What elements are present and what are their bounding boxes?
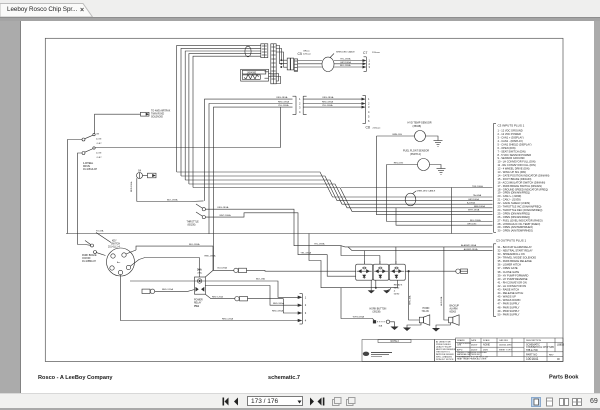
logo in title block	[363, 352, 392, 357]
left bus vertical 2	[78, 153, 83, 245]
key switch circle	[107, 248, 300, 297]
svg-text:FUEL FLOAT SENSOR: FUEL FLOAT SENSOR	[403, 149, 429, 152]
svg-text:ON/OFF: ON/OFF	[82, 258, 91, 260]
svg-text:(39138): (39138)	[373, 312, 381, 314]
svg-text:6: 6	[368, 119, 370, 123]
C3 outputs list text	[496, 238, 536, 316]
svg-text:NONE: NONE	[483, 344, 490, 347]
svg-text:BRN-18G: BRN-18G	[393, 134, 403, 136]
svg-text:26 - OPEN (DIN/AIN/FREQ): 26 - OPEN (DIN/AIN/FREQ)	[498, 215, 531, 219]
fuse lower RED-12GA	[205, 294, 299, 313]
svg-text:16 - ACCUMULATOR SWITCH (DIN/A: 16 - ACCUMULATOR SWITCH (DIN/AIN)	[498, 180, 546, 184]
svg-text:19 - OPEN (DIN/AIN/FREQ): 19 - OPEN (DIN/AIN/FREQ)	[498, 191, 531, 195]
svg-text:25 - OPEN (DIN/AIN/FREQ): 25 - OPEN (DIN/AIN/FREQ)	[498, 211, 531, 215]
svg-text:5 - CAN1 SHIELD (DISPLAY): 5 - CAN1 SHIELD (DISPLAY)	[498, 142, 532, 146]
wire relay out to gate plug	[405, 270, 455, 272]
hyd temp sensor circle	[377, 131, 439, 142]
svg-text:ALR-18A: ALR-18A	[440, 296, 443, 305]
svg-text:schematic.7: schematic.7	[268, 375, 300, 381]
svg-text:RED 12GA: RED 12GA	[212, 296, 223, 299]
svg-text:WHT-18GA: WHT-18GA	[219, 214, 231, 217]
svg-text:2: 2	[368, 102, 370, 106]
svg-text:D-ON: D-ON	[96, 152, 102, 154]
svg-text:RED-18GA: RED-18GA	[273, 302, 284, 305]
svg-text:SCALE: SCALE	[483, 339, 490, 342]
svg-text:ALARM: ALARM	[450, 308, 458, 311]
svg-text:47 - PWR SUPPLY: 47 - PWR SUPPLY	[498, 302, 520, 306]
svg-text:44 - RELEASE HITCH: 44 - RELEASE HITCH	[498, 291, 524, 295]
fuel float sensor circle	[387, 159, 441, 183]
wire S4 drop	[136, 178, 138, 201]
ground horn	[404, 323, 421, 331]
wire wraps from block B to C5	[276, 46, 287, 64]
layout icons	[532, 398, 582, 407]
svg-text:O-BY: O-BY	[97, 143, 103, 145]
svg-text:RED-12GA: RED-12GA	[162, 288, 173, 291]
svg-text:S4: S4	[138, 169, 142, 172]
svg-text:&: &	[394, 290, 396, 292]
wire fuse to relay trio	[247, 269, 356, 272]
svg-text:11 - RH CONVEYOR FULL (DIN): 11 - RH CONVEYOR FULL (DIN)	[498, 163, 536, 167]
svg-text:POWER: POWER	[194, 300, 203, 302]
svg-text:DATE: DATE	[471, 339, 477, 342]
svg-text:P2-18A: P2-18A	[96, 229, 104, 232]
svg-text:UNLESS OTHERWISE SPECIFIED: UNLESS OTHERWISE SPECIFIED	[457, 352, 488, 354]
svg-text:50/60: 50/60	[394, 287, 400, 289]
wires C5 to shielded cable circle	[298, 60, 322, 62]
wire wraps from block B bottom to diode box	[269, 74, 279, 82]
svg-text:ORG-18GA: ORG-18GA	[276, 96, 288, 99]
wire sensor bus to C3	[377, 136, 493, 215]
svg-text:HORN BUTTON: HORN BUTTON	[370, 308, 387, 310]
svg-text:Rosco - A LeeBoy Company: Rosco - A LeeBoy Company	[38, 375, 113, 381]
svg-text:DESCRIPTION: DESCRIPTION	[526, 340, 541, 342]
ground fuel float	[437, 169, 446, 175]
svg-text:YEL-18GA: YEL-18GA	[278, 104, 289, 107]
svg-text:38 - CLOSE GATE: 38 - CLOSE GATE	[498, 270, 520, 274]
svg-text:2: 2	[299, 102, 301, 106]
snapshot icons	[333, 398, 356, 406]
svg-text:WHT-18GA: WHT-18GA	[353, 316, 365, 319]
cable tie ellipse	[245, 46, 251, 57]
svg-text:40 - HY PUMP REVERSE: 40 - HY PUMP REVERSE	[498, 277, 528, 281]
svg-text:27 - FUEL LEVEL INDICATOR (RHE: 27 - FUEL LEVEL INDICATOR (RHEO)	[498, 218, 543, 222]
svg-text:24 - THROTTLE DEC (DIN/AIN/FRE: 24 - THROTTLE DEC (DIN/AIN/FREQ)	[498, 208, 543, 212]
svg-text:37 - OPEN GATE: 37 - OPEN GATE	[498, 266, 518, 270]
svg-text:GRY-18GA: GRY-18GA	[340, 61, 351, 64]
nested loop corner to relay feeds	[309, 234, 398, 288]
svg-text:RED-18G: RED-18G	[394, 162, 404, 164]
svg-text:2 - 12 VDC POWER: 2 - 12 VDC POWER	[498, 132, 521, 136]
svg-text:3: 3	[299, 106, 301, 110]
svg-text:34 - TRAVEL 'MODE' SOLENOID: 34 - TRAVEL 'MODE' SOLENOID	[498, 256, 537, 260]
wire bundle top-left 4 conductors	[177, 45, 261, 172]
wire throttle out 2 staircase	[205, 213, 294, 217]
footer texts	[38, 375, 579, 382]
shielded cable symbol lower	[405, 193, 416, 206]
svg-text:REV: REV	[549, 354, 554, 356]
svg-text:DRIVE: DRIVE	[83, 166, 90, 168]
svg-text:SHIELDED CABLE: SHIELDED CABLE	[336, 51, 355, 54]
wire key to relay coil A	[136, 246, 213, 250]
alarm wires to C3 outputs	[444, 246, 493, 248]
svg-text:7 - SEAT SWITCH (DIN): 7 - SEAT SWITCH (DIN)	[498, 149, 526, 153]
wire key down long RED-12GA	[121, 275, 300, 321]
horn speaker	[419, 315, 430, 326]
svg-text:TO 4WD AIRTRAX: TO 4WD AIRTRAX	[151, 110, 171, 113]
svg-text:Parts Book: Parts Book	[549, 375, 579, 381]
fuse feed left RED-12GA	[142, 289, 195, 293]
svg-text:C5: C5	[298, 52, 302, 56]
svg-text:50/90: 50/90	[394, 293, 400, 295]
svg-text:49 - PWR SUPPLY: 49 - PWR SUPPLY	[498, 309, 520, 313]
svg-text:SOLENOID: SOLENOID	[151, 117, 163, 119]
wire mid vertical to relays feed	[294, 213, 356, 276]
svg-text:21 - CANJ - (J1939): 21 - CANJ - (J1939)	[498, 198, 521, 202]
svg-text:BLU-18GA: BLU-18GA	[470, 219, 481, 222]
4WD switch	[82, 114, 141, 154]
svg-text:39 - HY PUMP FORWARD: 39 - HY PUMP FORWARD	[498, 273, 529, 277]
backup alarm speaker	[449, 315, 460, 326]
wire to C8 pin2	[205, 286, 299, 306]
wire key to relay coil B	[139, 258, 199, 278]
harness wires ORG/RED/YEL to C8	[205, 99, 293, 201]
connector block B	[271, 44, 276, 84]
relay trigger drops	[363, 251, 365, 265]
connector block A	[261, 44, 268, 58]
svg-text:(78L): (78L)	[198, 273, 203, 275]
svg-text:SHEET 7 OF 9: SHEET 7 OF 9	[499, 349, 512, 351]
svg-text:9 - SENSOR GROUND: 9 - SENSOR GROUND	[498, 156, 525, 160]
svg-text:DRAWN: DRAWN	[457, 339, 465, 342]
fuse upper BLU	[234, 268, 247, 272]
svg-text:TA-GNA: TA-GNA	[473, 194, 482, 197]
svg-text:46 - WINGS DOWN: 46 - WINGS DOWN	[498, 298, 521, 302]
svg-text:GRxxx: GRxxx	[303, 51, 310, 53]
wire P2 into key switch	[96, 233, 111, 243]
frame border	[45, 38, 563, 361]
svg-text:1001641.DWG: 1001641.DWG	[499, 345, 512, 347]
svg-text:ORG-18GA: ORG-18GA	[322, 96, 334, 99]
svg-text:C7: C7	[363, 51, 367, 55]
svg-text:T8B & 70D: T8B & 70D	[526, 349, 538, 352]
svg-text:30A: 30A	[197, 268, 202, 272]
relay box 3	[389, 261, 405, 280]
nav first-page icon	[223, 398, 325, 406]
svg-text:3 - CAN1 + (DISPLAY): 3 - CAN1 + (DISPLAY)	[498, 136, 524, 140]
svg-text:BLK-18GA: BLK-18GA	[340, 64, 351, 67]
svg-text:TRK-18GA: TRK-18GA	[472, 185, 483, 188]
ground horn button	[390, 322, 398, 330]
svg-text:4/02/07: 4/02/07	[471, 345, 477, 347]
wires circle to C7	[334, 60, 363, 62]
horn button contacts	[373, 320, 389, 323]
svg-text:12 - 4 WHEEL DRIVE (DIN): 12 - 4 WHEEL DRIVE (DIN)	[498, 167, 530, 171]
left bus vertical 1	[68, 140, 83, 234]
wire key coil A drop	[213, 246, 234, 270]
connector C8 top bracket	[362, 96, 366, 124]
svg-text:14 - GATE POSITION INDICATOR (: 14 - GATE POSITION INDICATOR (DIN/AIN)	[498, 173, 550, 177]
svg-text:20 - CANJ + (J1939): 20 - CANJ + (J1939)	[498, 194, 522, 198]
connector C7 bracket	[363, 57, 367, 72]
svg-text:1N5400E: 1N5400E	[247, 72, 257, 74]
title block texts	[391, 339, 565, 361]
svg-text:2: 2	[305, 303, 307, 307]
svg-text:50 - PWR SUPPLY: 50 - PWR SUPPLY	[498, 312, 520, 316]
svg-text:3: 3	[368, 105, 370, 109]
svg-text:ALARM2-18GA: ALARM2-18GA	[461, 244, 477, 247]
svg-text:RELAYS: RELAYS	[394, 283, 403, 286]
svg-text:33 - SPREADROLL ON: 33 - SPREADROLL ON	[498, 252, 525, 256]
throttle switch	[196, 204, 205, 219]
relay box 2	[373, 261, 389, 280]
svg-text:29 - OPEN (AIN/TEMP/RHEO): 29 - OPEN (AIN/TEMP/RHEO)	[498, 225, 534, 229]
svg-text:THROTTLE: THROTTLE	[187, 221, 200, 223]
svg-text:70A: 70A	[194, 304, 199, 308]
relay box 1	[356, 261, 373, 280]
svg-text:4 - CAN1 - (DISPLAY): 4 - CAN1 - (DISPLAY)	[498, 139, 524, 143]
svg-text:(35478-2): (35478-2)	[410, 153, 421, 156]
junction dots relays	[280, 59, 409, 289]
svg-text:GRY-18G: GRY-18G	[467, 224, 477, 226]
svg-text:3: 3	[305, 311, 307, 315]
svg-text:PARK BRAKE: PARK BRAKE	[82, 254, 97, 257]
svg-text:(65100): (65100)	[188, 224, 196, 226]
svg-text:32 - NEUTRAL START RELAY: 32 - NEUTRAL START RELAY	[498, 248, 533, 252]
inline connector pair brackets	[293, 96, 307, 114]
diode suppressor box 1N5400E	[241, 69, 269, 81]
svg-text:CAD FILE: CAD FILE	[499, 339, 509, 342]
C3 inputs list text	[498, 124, 550, 233]
svg-text:1: 1	[305, 295, 307, 299]
svg-text:8 - 5 VDC SENSOR POWER: 8 - 5 VDC SENSOR POWER	[498, 153, 532, 157]
svg-text:18 - GROUND SPEED INDICATOR (F: 18 - GROUND SPEED INDICATOR (FREQ)	[498, 187, 549, 191]
ground relay1	[369, 291, 375, 293]
svg-text:C3 INPUTS PLUS 1: C3 INPUTS PLUS 1	[498, 124, 525, 128]
svg-text:YEL-18GA: YEL-18GA	[314, 243, 325, 246]
svg-text:42 - LH CONVEYOR ON: 42 - LH CONVEYOR ON	[498, 284, 527, 288]
svg-text:SWITCH: SWITCH	[111, 243, 120, 245]
relay outputs below	[370, 280, 372, 291]
svg-text:31 - BACKUP ALARM RELAY: 31 - BACKUP ALARM RELAY	[498, 245, 533, 249]
svg-text:4: 4	[305, 319, 307, 323]
svg-text:HRN-18A: HRN-18A	[408, 295, 411, 305]
svg-text:Acc: Acc	[117, 261, 120, 264]
svg-text:4-WHEEL: 4-WHEEL	[83, 163, 94, 165]
svg-text:ALRM2-18GA: ALRM2-18GA	[464, 248, 478, 251]
svg-text:RED-18GA: RED-18GA	[272, 310, 283, 313]
svg-text:SHIELDED CABLE: SHIELDED CABLE	[417, 189, 436, 192]
connector C8 left bracket	[298, 294, 302, 325]
svg-text:1 - 12 VDC GROUND: 1 - 12 VDC GROUND	[498, 129, 523, 133]
svg-text:17 - PARK BRAKE SWITCH (DIN/AI: 17 - PARK BRAKE SWITCH (DIN/AIN)	[498, 184, 543, 188]
svg-text:60063: 60063	[450, 312, 457, 314]
svg-text:30 - OPEN (AIN/TEMP/RHEO): 30 - OPEN (AIN/TEMP/RHEO)	[498, 229, 534, 233]
svg-text:BRK-18GA: BRK-18GA	[474, 205, 485, 208]
svg-text:41 - RH CONVEYOR ON: 41 - RH CONVEYOR ON	[498, 280, 527, 284]
svg-text:4: 4	[368, 110, 370, 114]
svg-text:5: 5	[368, 114, 370, 118]
svg-text:D-ON: D-ON	[96, 138, 102, 140]
svg-text:30A: 30A	[379, 324, 383, 327]
svg-text:00: 00	[557, 358, 560, 361]
svg-text:BLU-8GA: BLU-8GA	[218, 266, 228, 269]
svg-text:03-105GILCH: 03-105GILCH	[83, 169, 98, 171]
svg-text:28 - HYDRAULIC OIL TEMP (RHEO): 28 - HYDRAULIC OIL TEMP (RHEO)	[498, 222, 541, 226]
svg-text:1: 1	[368, 97, 370, 101]
C3 inputs bracket	[494, 124, 497, 233]
C3 outputs bracket	[494, 244, 497, 317]
svg-text:J.SMITH 4/02/07: J.SMITH 4/02/07	[457, 343, 471, 345]
long wire mid page	[66, 233, 493, 235]
svg-text:RED-18GA: RED-18GA	[278, 100, 289, 103]
svg-text:BLK-18GA: BLK-18GA	[167, 199, 178, 202]
svg-text:(35048): (35048)	[413, 125, 422, 128]
svg-text:KEY: KEY	[112, 240, 117, 242]
connector pin numbers	[299, 59, 371, 323]
wire labels	[130, 58, 485, 321]
svg-text:WITHOUT NOTICE: WITHOUT NOTICE	[436, 359, 454, 361]
svg-text:13 - WING UP SIG (DIN): 13 - WING UP SIG (DIN)	[498, 170, 527, 174]
svg-text:GRY-18GA: GRY-18GA	[468, 198, 479, 201]
svg-text:NOTE 2: NOTE 2	[391, 341, 400, 343]
svg-text:1001641: 1001641	[526, 357, 539, 361]
power relay box 30A	[195, 277, 206, 294]
svg-text:45 - WINGS UP: 45 - WINGS UP	[498, 295, 517, 299]
long wire y182	[341, 187, 493, 189]
svg-text:73A 09: 73A 09	[422, 310, 430, 313]
svg-text:LB853: LB853	[557, 344, 565, 347]
wires inline pair to C8	[303, 98, 362, 100]
svg-text:23 - THROTTLE INC (DIN/AIN/FRE: 23 - THROTTLE INC (DIN/AIN/FREQ)	[498, 205, 542, 209]
wire to throttle	[137, 200, 204, 203]
svg-text:RED-10GA: RED-10GA	[130, 181, 133, 192]
status bar	[0, 393, 600, 408]
park brake switch	[78, 241, 106, 256]
svg-text:HORN: HORN	[423, 308, 430, 310]
svg-text:C8: C8	[366, 126, 370, 130]
svg-text:TOLERANCES .X +/- .06 .XX +/: TOLERANCES .X +/- .06 .XX +/- .03	[457, 355, 488, 358]
svg-text:36 - LOWER HITCH: 36 - LOWER HITCH	[498, 263, 521, 267]
ground hyd temp	[434, 141, 443, 147]
svg-text:PART NO: PART NO	[526, 352, 537, 356]
horn feed drop	[409, 271, 420, 320]
svg-text:201-6LL1-4: 201-6LL1-4	[108, 246, 120, 248]
svg-text:15 - FOOT BRAKE (DIN/AIN): 15 - FOOT BRAKE (DIN/AIN)	[498, 177, 532, 181]
tab bar	[0, 0, 600, 17]
svg-text:1: 1	[299, 97, 301, 101]
svg-text:3: 3	[369, 65, 371, 69]
svg-text:YEL-18GA: YEL-18GA	[301, 252, 312, 255]
wire YEL drop junction	[95, 107, 280, 147]
backup alarm feed drop	[444, 247, 449, 320]
svg-text:HYD TEMP SENSOR: HYD TEMP SENSOR	[408, 121, 432, 124]
svg-text:TWIN ROXD: TWIN ROXD	[151, 114, 164, 116]
connector C5 pair	[287, 58, 297, 71]
svg-text:C3 OUTPUTS PLUS 1: C3 OUTPUTS PLUS 1	[496, 238, 527, 242]
svg-text:WHT-18GA: WHT-18GA	[468, 209, 480, 212]
svg-text:A-18GA: A-18GA	[467, 201, 475, 204]
bus wires to C3 inputs with diagonal jogs	[177, 172, 493, 197]
title block	[362, 338, 563, 361]
svg-text:YEL-18GA: YEL-18GA	[322, 104, 333, 107]
wire throttle out 1	[205, 209, 444, 247]
svg-text:03-105BILCH: 03-105BILCH	[82, 261, 96, 263]
svg-text:BLK-18GA: BLK-18GA	[189, 243, 200, 246]
svg-text:22Gaue: 22Gaue	[303, 54, 312, 56]
ground backup alarm	[433, 323, 451, 331]
svg-text:22Gaue: 22Gaue	[372, 52, 381, 54]
svg-text:4: 4	[299, 110, 301, 114]
svg-text:RED-18GA: RED-18GA	[322, 100, 333, 103]
svg-text:48 - PWR SUPPLY: 48 - PWR SUPPLY	[498, 305, 520, 309]
ground relay2	[384, 288, 390, 293]
svg-text:YEL-18GA: YEL-18GA	[340, 58, 351, 61]
svg-text:RED-12GA: RED-12GA	[222, 317, 233, 320]
gate valve plug	[456, 269, 468, 273]
wire bus 5th conductor	[193, 56, 261, 187]
svg-text:35 - PARK BRAKE RELEASE: 35 - PARK BRAKE RELEASE	[498, 259, 533, 263]
svg-text:BLK-18A: BLK-18A	[256, 278, 265, 281]
4WD solenoid inline plug	[141, 112, 150, 116]
svg-text:43 - RAISE HITCH: 43 - RAISE HITCH	[498, 288, 520, 292]
svg-text:O-BY: O-BY	[97, 157, 103, 159]
svg-text:RED-18GA: RED-18GA	[205, 254, 216, 257]
svg-text:ORG-18GA: ORG-18GA	[217, 206, 229, 209]
svg-text:22 - GANG SHIELD (J1939): 22 - GANG SHIELD (J1939)	[498, 201, 531, 205]
S4 fuse	[137, 173, 157, 179]
svg-text:ON: ON	[96, 134, 100, 136]
horn button wire	[341, 288, 374, 321]
svg-text:22Gaue: 22Gaue	[373, 127, 382, 129]
svg-text:6 - OPEN (DIN): 6 - OPEN (DIN)	[498, 146, 516, 150]
svg-text:BACKUP: BACKUP	[450, 305, 460, 308]
shielded cable symbol (top)	[322, 57, 334, 71]
svg-text:10 - LH CONVEYOR FULL (DIN): 10 - LH CONVEYOR FULL (DIN)	[498, 160, 536, 164]
